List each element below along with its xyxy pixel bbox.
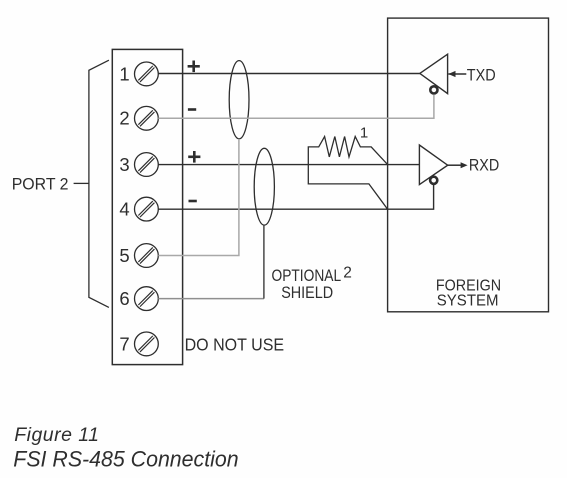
TXD input line <box>448 73 466 75</box>
twisted pair ellipse 2 <box>254 148 274 225</box>
svg-text:6: 6 <box>119 288 129 309</box>
svg-text:1: 1 <box>360 125 368 142</box>
terminal 2 screw <box>135 106 159 130</box>
svg-text:1: 1 <box>119 63 129 84</box>
RXD buffer U2 <box>419 145 447 185</box>
svg-text:4: 4 <box>119 199 129 220</box>
minus label terminal2 <box>188 108 196 111</box>
wire terminal3 to RXD input <box>158 164 419 166</box>
TXD buffer U1 <box>420 54 448 93</box>
svg-text:5: 5 <box>119 245 129 266</box>
TXD arrowhead <box>448 71 455 77</box>
PORT 2 dash <box>74 182 89 184</box>
terminal 5 screw <box>135 244 159 268</box>
resistor R1 loop <box>308 137 387 210</box>
terminal 3 screw <box>135 153 159 177</box>
svg-text:2: 2 <box>119 108 129 129</box>
FOREIGN SYSTEM box <box>388 18 549 312</box>
terminal 1 screw <box>135 62 159 86</box>
wire terminal1 to TXD output <box>158 73 420 75</box>
RXD bubble <box>430 177 437 184</box>
svg-text:SYSTEM: SYSTEM <box>437 292 499 309</box>
svg-text:3: 3 <box>119 154 129 175</box>
svg-text:TXD: TXD <box>467 65 496 84</box>
minus label terminal4 <box>189 200 197 203</box>
terminal 6 screw <box>135 287 159 311</box>
svg-text:7: 7 <box>119 333 129 354</box>
RXD output line <box>448 164 462 166</box>
RXD arrowhead <box>461 162 468 168</box>
wire terminal5 shield to ellipse1 (gray) <box>158 139 239 256</box>
svg-text:RXD: RXD <box>469 156 499 175</box>
svg-text:DO NOT USE: DO NOT USE <box>185 335 285 355</box>
svg-text:Figure 11: Figure 11 <box>14 424 99 446</box>
TXD bubble <box>430 86 437 93</box>
svg-text:OPTIONAL: OPTIONAL <box>272 267 342 285</box>
svg-text:FSI RS-485 Connection: FSI RS-485 Connection <box>13 446 238 471</box>
plus label terminal1 <box>188 61 200 73</box>
wire ellipse2 shield drop to terminal6 <box>263 225 265 299</box>
terminal 4 screw <box>135 197 159 221</box>
svg-text:2: 2 <box>343 264 352 281</box>
wire terminal2 to TXD bubble (gray) <box>158 95 434 119</box>
terminal 7 screw <box>135 332 159 356</box>
terminal block TB1 <box>112 49 182 364</box>
svg-text:PORT 2: PORT 2 <box>12 175 69 193</box>
plus label terminal3 <box>188 151 200 163</box>
twisted pair ellipse 1 <box>229 61 249 139</box>
wire terminal4 to RXD bubble <box>158 184 433 209</box>
PORT 2 bracket <box>89 60 109 307</box>
svg-text:SHIELD: SHIELD <box>281 284 333 302</box>
wire terminal6 shield horizontal <box>158 298 264 300</box>
